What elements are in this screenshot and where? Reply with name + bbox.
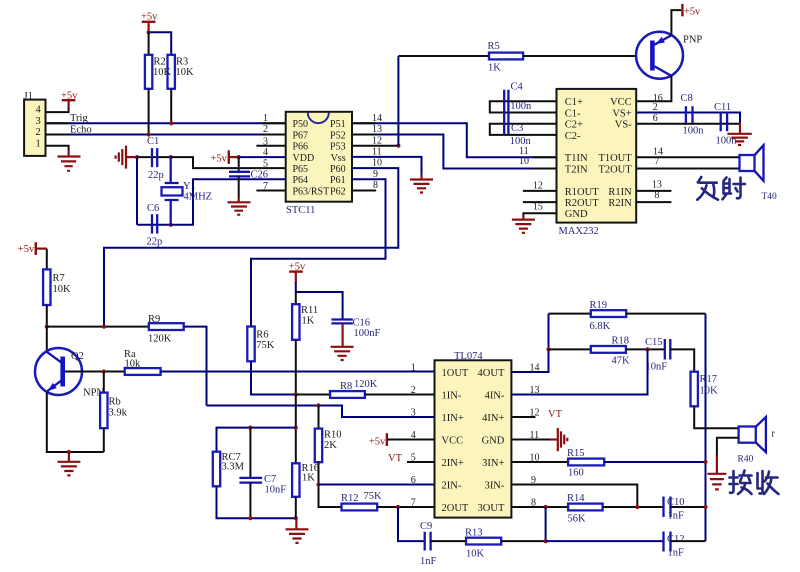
capacitor C10 bbox=[664, 497, 685, 522]
svg-text:P51: P51 bbox=[330, 119, 346, 130]
svg-text:C6: C6 bbox=[147, 203, 159, 214]
svg-text:4OUT: 4OUT bbox=[478, 368, 505, 379]
wire C1 row bbox=[137, 156, 171, 158]
svg-text:+5v: +5v bbox=[211, 154, 228, 165]
wire C12 column bbox=[545, 507, 547, 541]
wire VS- row bbox=[636, 123, 739, 125]
capacitor C12 bbox=[664, 532, 685, 559]
capacitor C1 bbox=[147, 136, 164, 181]
ground (C8/C11) bbox=[727, 123, 751, 146]
wire T2OUT to speaker bbox=[636, 168, 739, 170]
svg-text:10K: 10K bbox=[700, 386, 719, 397]
wire crystal bottom to STC P64 bbox=[171, 179, 286, 225]
svg-text:STC11: STC11 bbox=[286, 205, 315, 216]
junction Trig/R3 bbox=[169, 121, 173, 125]
svg-text:P67: P67 bbox=[293, 130, 309, 141]
svg-text:P50: P50 bbox=[293, 119, 309, 130]
wire Vss to ground bbox=[352, 157, 422, 176]
svg-text:C12: C12 bbox=[667, 534, 685, 545]
svg-text:R3: R3 bbox=[176, 57, 188, 68]
junction 4OUT/R18 bbox=[546, 347, 550, 351]
svg-text:4MHZ: 4MHZ bbox=[184, 192, 213, 203]
resistor R19 bbox=[590, 300, 627, 332]
wire Trig (J1 pin3 to STC P50) bbox=[46, 122, 286, 124]
svg-text:22p: 22p bbox=[148, 170, 164, 181]
transistor Q1 PNP bbox=[636, 32, 702, 79]
wire PNP emitter to +5v bbox=[671, 10, 681, 35]
resistor RC7 bbox=[213, 452, 245, 487]
junction 2IN- tap bbox=[316, 482, 320, 486]
wire P51 to MAX232 T1IN bbox=[352, 123, 557, 157]
wire R2 bottom to Echo bbox=[148, 89, 150, 135]
resistor R7 bbox=[43, 269, 71, 305]
junction C9 row/C12 column bbox=[544, 539, 548, 543]
svg-text:3: 3 bbox=[411, 407, 416, 418]
svg-text:C2-: C2- bbox=[565, 131, 581, 142]
svg-text:R1OUT: R1OUT bbox=[565, 187, 599, 198]
svg-text:R17: R17 bbox=[700, 374, 718, 385]
power +5v (R7) bbox=[18, 242, 47, 255]
svg-text:75K: 75K bbox=[256, 340, 275, 351]
svg-text:4: 4 bbox=[36, 105, 42, 116]
svg-text:C1-: C1- bbox=[565, 108, 581, 119]
MAX232 pin numbers bbox=[519, 93, 663, 213]
wire +5v rail to R11/C16 bbox=[296, 282, 343, 319]
svg-text:12: 12 bbox=[372, 135, 382, 146]
junction crystal bottom bbox=[169, 223, 173, 227]
svg-text:P64: P64 bbox=[293, 175, 309, 186]
ground (rotated left, crystal rail) bbox=[116, 146, 137, 169]
svg-text:R7: R7 bbox=[53, 273, 65, 284]
capacitor C3 bbox=[510, 123, 532, 147]
svg-text:C2+: C2+ bbox=[565, 120, 583, 131]
junction 4IN- column bbox=[645, 347, 649, 351]
svg-text:R14: R14 bbox=[567, 493, 585, 504]
wire R17 to speaker top bbox=[694, 406, 738, 428]
junction emitter ground bbox=[67, 450, 71, 454]
svg-text:C4: C4 bbox=[511, 82, 524, 93]
wire GND pin11 bbox=[511, 439, 551, 441]
wire C12 right to big vertical bbox=[671, 540, 706, 542]
svg-text:3.3M: 3.3M bbox=[222, 462, 245, 473]
wire VDD node to STC pin4 bbox=[239, 156, 286, 158]
op-amp U1 STC11 box bbox=[286, 112, 352, 216]
svg-text:4IN-: 4IN- bbox=[485, 390, 505, 401]
wire VS+ row bbox=[636, 113, 740, 125]
svg-text:1K: 1K bbox=[488, 62, 501, 73]
svg-text:+5v: +5v bbox=[684, 7, 701, 18]
svg-text:2IN+: 2IN+ bbox=[442, 458, 464, 469]
wire R9 right to TL074 1IN+ bbox=[184, 327, 207, 406]
STC11 pin numbers left bbox=[263, 113, 268, 192]
node rail R2/R3 top bbox=[149, 32, 172, 55]
svg-text:1: 1 bbox=[263, 113, 268, 124]
svg-text:2: 2 bbox=[411, 385, 416, 396]
wire crystal top to STC P65 bbox=[171, 157, 286, 168]
wire R5 to PNP base bbox=[523, 55, 650, 57]
resistor R11 bbox=[292, 292, 318, 340]
svg-text:T1IN: T1IN bbox=[565, 153, 588, 164]
junction P60 node bbox=[102, 325, 106, 329]
svg-text:7: 7 bbox=[263, 181, 268, 192]
wire R8 right to TL074 1IN- bbox=[365, 394, 435, 396]
svg-text:VS-: VS- bbox=[615, 120, 632, 131]
svg-text:3.9k: 3.9k bbox=[109, 408, 128, 419]
wire P62 stub bbox=[352, 190, 376, 192]
svg-text:C16: C16 bbox=[353, 318, 371, 329]
svg-text:P61: P61 bbox=[330, 175, 346, 186]
STC11 pin names right bbox=[330, 119, 346, 197]
wire Echo (J1 pin2 to STC P67) bbox=[46, 134, 286, 136]
capacitor C8 bbox=[681, 93, 705, 137]
wire 3OUT row bbox=[511, 506, 568, 508]
svg-text:3IN+: 3IN+ bbox=[482, 458, 504, 469]
svg-text:T2IN: T2IN bbox=[565, 164, 588, 175]
ground (C16) bbox=[331, 323, 354, 360]
wire node row to R9 bbox=[47, 326, 149, 328]
wire C15 to R17 bbox=[670, 349, 694, 371]
svg-text:1nF: 1nF bbox=[668, 548, 685, 559]
junction rail/column bbox=[294, 426, 298, 430]
wire R6 bottom to 1IN- row bbox=[251, 361, 296, 394]
svg-text:47K: 47K bbox=[612, 356, 631, 367]
svg-text:2: 2 bbox=[653, 102, 658, 113]
resistor R13 bbox=[465, 528, 501, 560]
wire P61 to R6 bbox=[251, 179, 386, 326]
wire 4OUT to feedback column bbox=[511, 314, 548, 372]
svg-text:100n: 100n bbox=[683, 126, 705, 137]
wire P53 stub bbox=[352, 145, 398, 147]
capacitor C7 bbox=[239, 428, 286, 519]
capacitor C4 bbox=[504, 82, 532, 135]
speaker T40 bbox=[740, 145, 778, 202]
svg-text:22p: 22p bbox=[147, 237, 163, 248]
junction R15/vertical bbox=[703, 460, 707, 464]
svg-text:3: 3 bbox=[263, 136, 268, 147]
svg-text:R1IN: R1IN bbox=[608, 187, 632, 198]
svg-text:2OUT: 2OUT bbox=[442, 503, 469, 514]
ground (Q2) bbox=[57, 452, 80, 475]
svg-text:1nF: 1nF bbox=[668, 511, 685, 522]
junction base/Rb bbox=[102, 369, 106, 373]
svg-text:+5v: +5v bbox=[369, 436, 386, 447]
svg-text:1OUT: 1OUT bbox=[442, 368, 469, 379]
junction Echo/R2 bbox=[147, 132, 151, 136]
svg-text:14: 14 bbox=[372, 113, 382, 124]
svg-text:15: 15 bbox=[533, 202, 543, 213]
wire R11 column to RC7 rail bbox=[295, 395, 297, 464]
svg-text:5: 5 bbox=[263, 158, 268, 169]
power +5v (R2/R3 rail) bbox=[141, 12, 158, 33]
svg-text:1nF: 1nF bbox=[420, 556, 437, 567]
svg-text:R2: R2 bbox=[154, 57, 166, 68]
svg-text:C8: C8 bbox=[681, 93, 693, 104]
svg-text:+5v: +5v bbox=[18, 244, 35, 255]
power +5v (J1) bbox=[61, 91, 78, 108]
wire R5 vertical net bbox=[397, 56, 399, 146]
junction dot +5v rail bbox=[147, 30, 151, 34]
resistor R18 bbox=[591, 336, 630, 367]
capacitor C11 bbox=[714, 102, 737, 147]
junction C7 top bbox=[248, 426, 252, 430]
svg-text:3OUT: 3OUT bbox=[478, 503, 505, 514]
svg-text:3IN-: 3IN- bbox=[485, 480, 505, 491]
svg-text:VDD: VDD bbox=[293, 153, 315, 164]
svg-text:P52: P52 bbox=[330, 130, 346, 141]
wire R11 bottom bbox=[295, 340, 297, 395]
svg-text:Q2: Q2 bbox=[71, 351, 84, 362]
svg-text:C1+: C1+ bbox=[565, 97, 583, 108]
svg-text:2K: 2K bbox=[324, 440, 337, 451]
wire +5v to R7 bbox=[46, 249, 48, 270]
capacitor C6 bbox=[147, 203, 163, 248]
MAX232 pin names right bbox=[598, 97, 632, 209]
svg-text:12: 12 bbox=[533, 181, 543, 192]
svg-text:13: 13 bbox=[372, 124, 382, 135]
wire R1OUT stub bbox=[523, 190, 557, 192]
svg-text:100n: 100n bbox=[510, 136, 532, 147]
svg-text:R2IN: R2IN bbox=[608, 198, 632, 209]
svg-text:10K: 10K bbox=[153, 67, 172, 78]
svg-text:1K: 1K bbox=[302, 473, 315, 484]
svg-text:R2OUT: R2OUT bbox=[565, 198, 599, 209]
svg-text:2: 2 bbox=[263, 124, 268, 135]
svg-text:Rb: Rb bbox=[109, 397, 121, 408]
wire 3IN- to R14 row bbox=[511, 485, 637, 508]
wire C12 row bbox=[546, 540, 664, 542]
svg-text:R11: R11 bbox=[301, 305, 318, 316]
svg-text:56K: 56K bbox=[568, 514, 587, 525]
wire C6 row bbox=[137, 224, 171, 226]
svg-text:Trig: Trig bbox=[70, 113, 88, 124]
junction C10/vertical bbox=[703, 505, 707, 509]
svg-text:10nF: 10nF bbox=[265, 485, 287, 496]
STC11 pin names left bbox=[293, 119, 330, 197]
junction R10 top bbox=[316, 403, 320, 407]
wire R1IN stub bbox=[636, 190, 671, 192]
wire C4 loop (C1+/C1-) bbox=[490, 101, 557, 112]
wire 3IN+ row bbox=[511, 461, 568, 463]
resistor R16 bbox=[292, 463, 319, 518]
wire R10 bottom to R12/2IN- bbox=[319, 462, 342, 507]
svg-text:120K: 120K bbox=[354, 379, 378, 390]
junction R16/ground bbox=[294, 516, 298, 520]
op-amp U2 MAX232 box bbox=[557, 89, 637, 237]
resistor Ra bbox=[124, 349, 161, 375]
wire Rb bottom bbox=[103, 428, 105, 452]
wire T1OUT to speaker bbox=[636, 156, 739, 158]
node VT (pin12) bbox=[511, 409, 562, 420]
wire GND stub to ground bbox=[523, 213, 556, 216]
resistor R17 bbox=[691, 372, 719, 407]
node VT (pin5) bbox=[388, 453, 435, 464]
connector J1 bbox=[24, 91, 46, 156]
svg-text:T2OUT: T2OUT bbox=[598, 164, 632, 175]
transistor Q2 NPN bbox=[35, 327, 104, 399]
wire 1IN- to R8 bbox=[296, 394, 330, 396]
svg-text:P62: P62 bbox=[330, 186, 346, 197]
MAX232 pin names left bbox=[565, 97, 599, 220]
junction R7/collector bbox=[45, 325, 49, 329]
svg-text:P66: P66 bbox=[293, 142, 309, 153]
svg-text:4IN+: 4IN+ bbox=[482, 413, 504, 424]
junction C7 bottom bbox=[248, 516, 252, 520]
svg-text:VT: VT bbox=[548, 409, 563, 420]
wire Q2 base row bbox=[65, 371, 125, 373]
wire P60 long net bbox=[104, 168, 398, 327]
junction 2OUT/C9 bbox=[396, 505, 400, 509]
wire 1IN+ row bbox=[207, 406, 435, 418]
svg-text:100n: 100n bbox=[510, 101, 532, 112]
svg-text:P60: P60 bbox=[330, 164, 346, 175]
svg-text:P65: P65 bbox=[293, 164, 309, 175]
svg-text:R12: R12 bbox=[341, 493, 359, 504]
STC11 left pin stubs bbox=[256, 146, 285, 191]
svg-text:VCC: VCC bbox=[610, 97, 632, 108]
resistor R8 bbox=[330, 379, 378, 398]
capacitor C15 bbox=[645, 337, 670, 373]
svg-text:GND: GND bbox=[565, 209, 588, 220]
wire RC7/C7 bottom rail bbox=[217, 486, 296, 518]
svg-text:1IN-: 1IN- bbox=[442, 390, 462, 401]
svg-text:VS+: VS+ bbox=[612, 108, 631, 119]
svg-text:9: 9 bbox=[373, 169, 378, 180]
TL074 pin numbers left bbox=[411, 362, 416, 508]
wire Ra right to TL074 1OUT bbox=[161, 371, 435, 373]
ground (TL074 GND rotated) bbox=[550, 428, 567, 451]
svg-text:1: 1 bbox=[411, 362, 416, 373]
junction R11/1IN- bbox=[294, 392, 298, 396]
ground (R16 rail) bbox=[286, 518, 309, 543]
op-amp U3 TL074 box bbox=[435, 351, 512, 518]
resistor R15 bbox=[567, 448, 604, 479]
wire J1 pin1 to ground bbox=[46, 146, 69, 151]
junction 3IN-/R14 bbox=[635, 505, 639, 509]
capacitor C9 bbox=[420, 521, 437, 567]
svg-text:10K: 10K bbox=[466, 549, 485, 560]
svg-text:8: 8 bbox=[373, 180, 378, 191]
STC11 pin numbers right bbox=[372, 113, 382, 191]
svg-text:100nF: 100nF bbox=[354, 328, 381, 339]
svg-text:10: 10 bbox=[519, 156, 529, 167]
svg-text:1IN+: 1IN+ bbox=[442, 413, 464, 424]
svg-text:C9: C9 bbox=[420, 521, 432, 532]
wire R2OUT stub bbox=[523, 201, 557, 203]
wire R18 row bbox=[549, 348, 591, 350]
svg-text:P63/RST: P63/RST bbox=[293, 186, 330, 197]
wire 2IN- row bbox=[319, 484, 435, 486]
svg-text:11: 11 bbox=[372, 147, 382, 158]
capacitor C26 bbox=[229, 157, 268, 180]
ground (C26) bbox=[228, 197, 251, 215]
ground (J1) bbox=[58, 150, 81, 171]
resistor R3 bbox=[153, 55, 194, 89]
svg-text:MAX232: MAX232 bbox=[559, 226, 599, 237]
TL074 pin numbers right bbox=[530, 362, 540, 508]
resistor R10 bbox=[315, 406, 342, 463]
svg-text:10K: 10K bbox=[176, 67, 195, 78]
crystal Y1 bbox=[162, 157, 213, 225]
svg-text:6: 6 bbox=[411, 475, 416, 486]
wire J1 pin4 to +5v bbox=[46, 107, 69, 112]
wire P52 to MAX232 T2IN bbox=[352, 135, 557, 169]
wire C3 loop (C2+/C2-) bbox=[490, 124, 557, 135]
label 接收 (receive) bbox=[730, 471, 779, 495]
TL074 pin names right bbox=[478, 368, 505, 514]
wire C26 to ground bbox=[238, 176, 240, 197]
svg-text:2IN-: 2IN- bbox=[442, 480, 462, 491]
resistor R9 bbox=[148, 314, 184, 345]
power +5v (TL074 VCC) bbox=[369, 433, 435, 447]
svg-text:6: 6 bbox=[653, 113, 658, 124]
svg-text:160: 160 bbox=[568, 468, 584, 479]
wire RC7/C7 top rail bbox=[217, 428, 296, 452]
svg-text:R10: R10 bbox=[324, 430, 342, 441]
svg-text:10: 10 bbox=[372, 158, 382, 169]
power +5v (PNP) bbox=[682, 4, 701, 18]
junction crystal rail left bbox=[135, 155, 139, 159]
svg-text:4: 4 bbox=[263, 147, 268, 158]
svg-text:Echo: Echo bbox=[70, 125, 92, 136]
ground (MAX232 GND) bbox=[512, 216, 535, 233]
wire left rail (C1 to C6) bbox=[136, 157, 138, 225]
wire C9 drop bbox=[398, 507, 424, 541]
svg-text:VT: VT bbox=[388, 453, 403, 464]
speaker R40 bbox=[738, 417, 776, 465]
resistor R5 bbox=[488, 41, 524, 74]
wire PNP collector to MAX232 VCC bbox=[636, 76, 671, 101]
svg-text:120K: 120K bbox=[148, 334, 172, 345]
capacitor C16 bbox=[331, 318, 380, 340]
wire R12 right to TL074 2OUT bbox=[377, 506, 434, 508]
wire R14 right to C10 bbox=[603, 506, 664, 508]
wire R3 bottom to Trig bbox=[170, 89, 172, 124]
svg-text:R5: R5 bbox=[488, 41, 500, 52]
svg-text:2: 2 bbox=[36, 127, 41, 138]
junction P53/R5 bbox=[396, 144, 400, 148]
junction 3OUT/C12 column bbox=[544, 505, 548, 509]
svg-text:C7: C7 bbox=[264, 474, 276, 485]
svg-text:C15: C15 bbox=[645, 337, 663, 348]
svg-text:C26: C26 bbox=[251, 170, 269, 181]
wire R7 bottom bbox=[46, 305, 48, 327]
power +5v (VDD) bbox=[211, 150, 239, 164]
svg-text:T1OUT: T1OUT bbox=[598, 153, 632, 164]
wire R2IN stub bbox=[636, 201, 671, 203]
svg-text:Vss: Vss bbox=[331, 153, 346, 164]
resistor R2 bbox=[145, 55, 152, 89]
wire big vertical net bbox=[705, 314, 707, 541]
svg-text:10K: 10K bbox=[53, 284, 72, 295]
svg-text:GND: GND bbox=[482, 435, 505, 446]
svg-text:7: 7 bbox=[411, 497, 416, 508]
wire R15 right to big vertical bbox=[604, 461, 705, 463]
wire R18 to C15 bbox=[626, 348, 664, 350]
svg-text:1: 1 bbox=[36, 138, 41, 149]
power +5v (R11 rail) bbox=[289, 261, 306, 283]
resistor R14 bbox=[567, 493, 603, 525]
svg-text:VCC: VCC bbox=[442, 435, 464, 446]
wire Q2 emitter to ground row bbox=[47, 392, 104, 452]
svg-text:C11: C11 bbox=[714, 102, 731, 113]
svg-text:P53: P53 bbox=[330, 142, 346, 153]
wire R19 right to big vertical bbox=[626, 313, 705, 315]
wire speaker R40 bottom to ground bbox=[717, 438, 739, 456]
junction VDD node bbox=[237, 155, 241, 159]
label 发射 (transmit) bbox=[697, 177, 745, 200]
svg-text:T40: T40 bbox=[762, 192, 778, 202]
wire 4IN- to R18 row bbox=[511, 349, 647, 394]
